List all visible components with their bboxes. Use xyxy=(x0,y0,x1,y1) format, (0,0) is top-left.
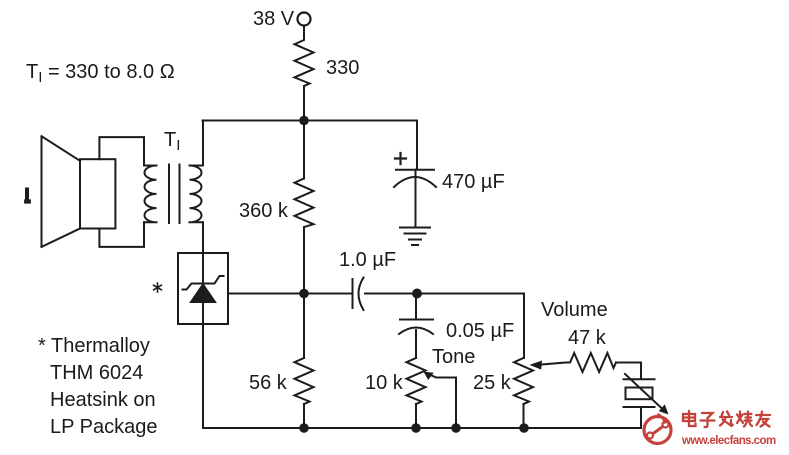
wire R2 to node B xyxy=(303,227,305,294)
capacitor C2 1.0uF left plate xyxy=(352,279,354,308)
svg-text:47 k: 47 k xyxy=(568,327,607,349)
capacitor C2 1.0uF curved plate xyxy=(359,278,364,311)
cartridge X1 bottom plate xyxy=(624,406,655,408)
watermark text dianzifashaoyou xyxy=(683,411,770,427)
wire secondary to U1 xyxy=(202,222,204,253)
amplifier U1 package xyxy=(178,253,228,324)
junction R5-rail xyxy=(519,423,529,433)
svg-text:0.05 µF: 0.05 µF xyxy=(446,320,514,342)
capacitor C1 470uF top plate xyxy=(396,169,434,171)
wire U1 output to node B xyxy=(228,293,352,295)
resistor R1 330 xyxy=(295,36,314,86)
ground xyxy=(400,228,430,246)
transformer T1 primary winding xyxy=(144,166,157,223)
wire node C down to C3 xyxy=(415,294,417,320)
wire R1 to node A xyxy=(303,86,305,121)
wire middle rail down to R5 xyxy=(523,294,525,359)
cartridge X1 arrow xyxy=(625,374,662,409)
svg-text:Heatsink on: Heatsink on xyxy=(50,389,156,411)
wire C1 to ground xyxy=(415,170,417,227)
wire bottom rail xyxy=(203,427,641,429)
node C junction xyxy=(412,289,422,299)
wire cartridge to bottom rail xyxy=(640,407,642,428)
wire U1 to bottom rail xyxy=(202,324,204,428)
watermark logo ring xyxy=(644,414,671,444)
svg-text:330: 330 xyxy=(326,57,359,79)
svg-text:360 k: 360 k xyxy=(239,200,289,222)
capacitor C3 0.05uF top plate xyxy=(400,319,433,321)
wire rail to C1 xyxy=(416,121,418,170)
wire top rail xyxy=(203,120,418,122)
wire secondary to top rail xyxy=(202,121,204,166)
amplifier U1 gate bar xyxy=(183,276,224,290)
wire node B to R3 xyxy=(303,294,305,359)
svg-text:56 k: 56 k xyxy=(249,372,288,394)
capacitor C3 0.05uF curved plate xyxy=(399,328,433,335)
potentiometer R4 wiper arrow xyxy=(428,374,457,378)
svg-text:* Thermalloy: * Thermalloy xyxy=(38,335,150,357)
cartridge X1 crystal body xyxy=(626,388,653,400)
svg-text:TI = 330 to 8.0 Ω: TI = 330 to 8.0 Ω xyxy=(26,61,175,86)
resistor R6 47k Volume xyxy=(566,353,616,372)
svg-text:THM 6024: THM 6024 xyxy=(50,362,143,384)
speaker LS1 cone xyxy=(42,136,81,247)
svg-text:www.elecfans.com: www.elecfans.com xyxy=(681,435,776,447)
wire speaker bottom lead xyxy=(99,222,144,247)
wire R3 to bottom rail xyxy=(303,404,305,428)
capacitor C1 470uF curved plate xyxy=(394,177,436,187)
watermark logo glow xyxy=(644,418,673,447)
junction wiper-rail xyxy=(451,423,461,433)
svg-text:LP Package: LP Package xyxy=(50,416,158,438)
transformer T1 secondary winding xyxy=(190,166,204,223)
transformer T1 core xyxy=(169,165,180,224)
junction R2-rail xyxy=(299,423,309,433)
wire R5 to bottom rail xyxy=(523,404,525,428)
cartridge X1 top plate xyxy=(624,378,655,380)
potentiometer R4 10k Tone xyxy=(407,358,426,404)
svg-text:TI: TI xyxy=(164,129,180,154)
svg-text:1.0 µF: 1.0 µF xyxy=(339,249,396,271)
capacitor C1 plus sign xyxy=(395,153,406,164)
wire C3 to R4 xyxy=(415,330,417,358)
amplifier U1 triangle xyxy=(191,285,215,303)
speaker LS1 driver xyxy=(80,159,115,228)
svg-text:25 k: 25 k xyxy=(473,372,512,394)
svg-text:Volume: Volume xyxy=(541,299,608,321)
terminal 38V supply xyxy=(298,13,311,26)
wire R6 to cartridge xyxy=(616,363,641,380)
resistor R2 360k xyxy=(295,179,314,228)
svg-text:470 µF: 470 µF xyxy=(442,171,505,193)
potentiometer R5 25k xyxy=(514,358,533,404)
artifact mark left edge xyxy=(25,190,29,198)
node A junction xyxy=(299,116,309,126)
wire R4 wiper to bottom rail xyxy=(455,378,457,429)
asterisk marker xyxy=(154,283,162,292)
wire terminal to R1 xyxy=(303,26,305,37)
svg-text:10 k: 10 k xyxy=(365,372,404,394)
junction R4-rail xyxy=(411,423,421,433)
svg-text:Tone: Tone xyxy=(432,346,475,368)
wire through U1 xyxy=(202,253,204,324)
wire R4 to bottom rail xyxy=(415,404,417,428)
svg-text:38 V: 38 V xyxy=(253,8,295,30)
resistor R3 56k xyxy=(295,358,314,404)
wire speaker top lead xyxy=(99,137,144,165)
potentiometer R5 wiper arrow xyxy=(541,363,566,365)
resistor R2 360k upper wire xyxy=(303,121,305,179)
wire C2 to node C xyxy=(365,293,524,295)
node B junction xyxy=(299,289,309,299)
